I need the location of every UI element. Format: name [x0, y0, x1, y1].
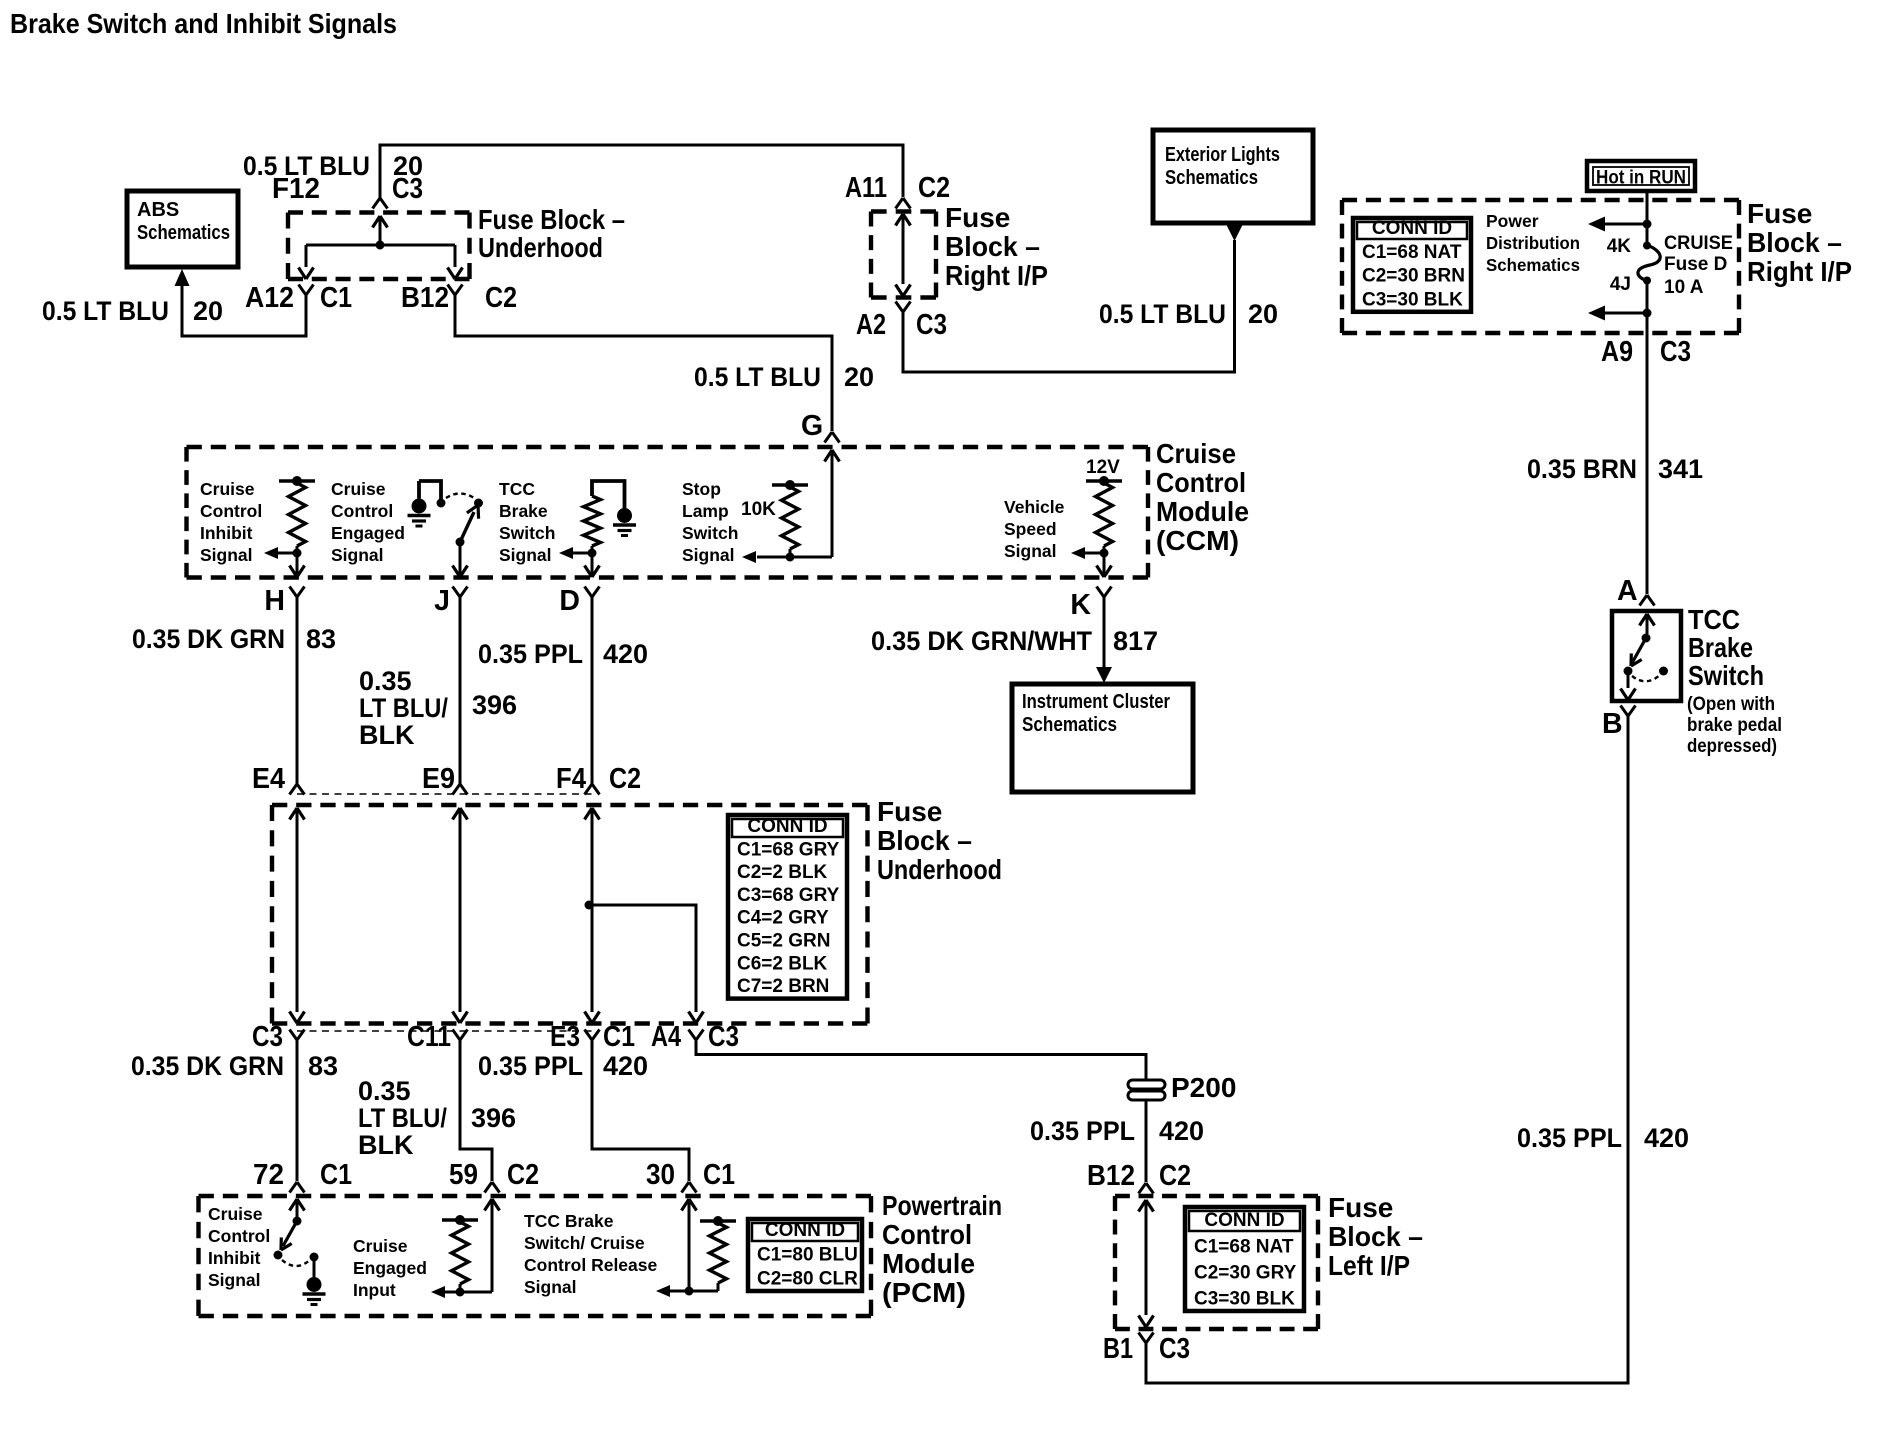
- svg-text:Engaged: Engaged: [331, 523, 405, 543]
- svg-text:CONN ID: CONN ID: [765, 1220, 845, 1241]
- P200 grommet: [1128, 1080, 1165, 1100]
- wire A4 to P200: [696, 1040, 1146, 1182]
- svg-text:Control: Control: [200, 501, 262, 521]
- connector G fork: [825, 432, 840, 443]
- junction dot 30: [685, 1287, 694, 1296]
- wire B12 to G: [455, 295, 832, 431]
- connector B12/C2 fork left: [1139, 1183, 1154, 1194]
- label Fuse Block - Underhood 2: [877, 796, 1002, 885]
- svg-text:Cruise: Cruise: [200, 479, 255, 499]
- svg-text:Brake: Brake: [1688, 632, 1753, 663]
- svg-text:Signal: Signal: [1004, 541, 1057, 561]
- arrow fuse bottom branch: [1588, 306, 1605, 321]
- svg-text:B1: B1: [1103, 1333, 1133, 1365]
- svg-text:420: 420: [1159, 1116, 1204, 1146]
- svg-text:Underhood: Underhood: [478, 232, 603, 263]
- wire C3 to pin 72: [296, 1040, 299, 1181]
- label TCC brake switch cruise control release signal: [524, 1211, 657, 1297]
- J switch ground contact dot: [437, 499, 446, 508]
- svg-text:H: H: [264, 585, 285, 617]
- wire C11 to pin 59: [460, 1040, 492, 1181]
- label Cruise Control Module CCM: [1156, 438, 1249, 556]
- wire A2 to exterior lights: [903, 240, 1235, 372]
- arrow K signal: [1071, 547, 1104, 559]
- svg-text:C2=2 BLK: C2=2 BLK: [737, 862, 828, 883]
- svg-text:C2: C2: [1159, 1160, 1191, 1192]
- label 0.35 LT BLU/BLK 396 lower: [358, 1076, 516, 1160]
- label F12 C3: [272, 173, 423, 205]
- svg-text:B12: B12: [1087, 1160, 1135, 1192]
- svg-text:0.35 BRN: 0.35 BRN: [1527, 454, 1637, 484]
- resistor 30 pullup bar: [700, 1216, 736, 1226]
- svg-text:B: B: [1602, 708, 1623, 740]
- connector A2/C3 fork: [896, 302, 911, 313]
- label 59 C2: [449, 1159, 539, 1191]
- svg-text:0.35: 0.35: [358, 1076, 411, 1106]
- label 0.35 DK GRN 83 upper: [132, 624, 336, 654]
- junction dot D branch: [585, 901, 594, 910]
- arrow 30 signal: [656, 1285, 718, 1297]
- svg-text:Schematics: Schematics: [1165, 167, 1258, 189]
- connector A4/C3 fork: [689, 1030, 704, 1041]
- CONN ID table left I/P: [1185, 1207, 1304, 1311]
- cruise control module box: [187, 447, 1149, 578]
- svg-text:Powertrain: Powertrain: [882, 1190, 1002, 1221]
- svg-text:Inhibit: Inhibit: [200, 523, 253, 543]
- label 0.5 LT BLU 20 left: [42, 296, 223, 326]
- svg-text:G: G: [801, 410, 823, 442]
- arrow down B1 inside: [1139, 1316, 1154, 1328]
- svg-text:F4: F4: [556, 763, 586, 795]
- wire A12 to ABS: [182, 286, 306, 336]
- J switch pivot dot: [456, 538, 465, 547]
- arrow up E4 inside: [290, 808, 305, 820]
- wire G branch left: [757, 556, 832, 559]
- svg-text:4K: 4K: [1607, 236, 1632, 257]
- svg-text:Signal: Signal: [331, 545, 384, 565]
- TCC switch contact dot B: [1659, 667, 1668, 676]
- svg-text:Block –: Block –: [877, 825, 972, 856]
- connector 30 fork: [682, 1182, 697, 1193]
- label 0.35 PPL 420 right: [1517, 1123, 1689, 1153]
- wire TCC pivot down: [1621, 671, 1636, 700]
- svg-text:CONN ID: CONN ID: [747, 816, 827, 837]
- connector A11/C2 fork: [896, 198, 911, 209]
- label Powertrain Control Module PCM: [882, 1190, 1002, 1308]
- connector 72 fork: [290, 1182, 305, 1193]
- connector B1/C3 fork: [1139, 1333, 1154, 1344]
- svg-text:C3: C3: [1660, 336, 1691, 368]
- resistor 30: [710, 1223, 727, 1291]
- svg-text:Stop: Stop: [682, 479, 721, 499]
- svg-text:(CCM): (CCM): [1156, 525, 1239, 556]
- svg-text:Instrument Cluster: Instrument Cluster: [1022, 691, 1170, 713]
- svg-text:0.35 PPL: 0.35 PPL: [1517, 1123, 1622, 1153]
- svg-text:30: 30: [646, 1159, 675, 1191]
- resistor K pullup bar: [1086, 476, 1122, 486]
- svg-text:Fuse: Fuse: [877, 796, 942, 827]
- connector C3 fork: [290, 1030, 305, 1041]
- ground J: [408, 481, 442, 526]
- svg-text:Brake: Brake: [499, 501, 548, 521]
- svg-text:CRUISE: CRUISE: [1664, 233, 1733, 254]
- ABS Schematics box: [127, 191, 238, 267]
- label A9 C3: [1601, 336, 1691, 368]
- connector C11 fork: [453, 1030, 468, 1041]
- label A11 C2: [845, 172, 950, 204]
- fuse block right I/P small box: [871, 212, 936, 298]
- label A2 C3: [856, 309, 947, 341]
- svg-text:Signal: Signal: [682, 545, 735, 565]
- junction dot G: [786, 553, 795, 562]
- svg-text:341: 341: [1658, 454, 1703, 484]
- svg-text:P200: P200: [1171, 1072, 1236, 1103]
- svg-text:K: K: [1070, 589, 1091, 621]
- svg-text:Block –: Block –: [945, 231, 1040, 262]
- svg-text:A2: A2: [856, 309, 886, 341]
- arrow down inside A11 box: [896, 285, 911, 297]
- svg-text:B12: B12: [401, 282, 449, 314]
- wire E4-C3 through box: [290, 808, 305, 1023]
- svg-text:Schematics: Schematics: [137, 222, 230, 244]
- svg-text:C1=68 NAT: C1=68 NAT: [1194, 1237, 1294, 1258]
- PCM switch contact post: [313, 1257, 316, 1277]
- fuse terminal bottom dot: [1643, 277, 1651, 285]
- arrow fuse top branch: [1588, 217, 1605, 232]
- label P200: [1171, 1072, 1236, 1103]
- svg-text:20: 20: [844, 362, 874, 392]
- label J: [434, 585, 450, 617]
- svg-text:C3: C3: [708, 1021, 739, 1053]
- svg-text:Cruise: Cruise: [1156, 438, 1236, 469]
- resistor D top to ground: [592, 481, 625, 509]
- svg-text:D: D: [559, 585, 580, 617]
- J switch blade: [460, 505, 479, 542]
- svg-text:Switch: Switch: [499, 523, 555, 543]
- svg-text:C3: C3: [1159, 1333, 1190, 1365]
- svg-text:420: 420: [603, 1051, 648, 1081]
- label Fuse Block - Left I/P: [1328, 1192, 1423, 1281]
- wire H down: [290, 553, 305, 577]
- svg-text:C2=80 CLR: C2=80 CLR: [757, 1269, 858, 1290]
- svg-text:Module: Module: [882, 1248, 975, 1279]
- label 72 C1: [253, 1159, 352, 1191]
- J switch travel arc: [446, 494, 474, 499]
- svg-text:10 A: 10 A: [1664, 277, 1704, 298]
- label 4K: [1607, 236, 1632, 257]
- label 0.5 LT BLU 20 right: [1099, 299, 1278, 329]
- svg-text:Cruise: Cruise: [353, 1236, 408, 1256]
- label Power Distribution Schematics: [1486, 211, 1580, 275]
- svg-text:83: 83: [306, 624, 336, 654]
- svg-text:J: J: [434, 585, 450, 617]
- svg-text:Block –: Block –: [1747, 227, 1842, 258]
- svg-text:0.5 LT BLU: 0.5 LT BLU: [1099, 299, 1226, 329]
- svg-text:brake pedal: brake pedal: [1687, 715, 1782, 736]
- TCC switch pivot dot: [1624, 667, 1633, 676]
- connector B fork: [1621, 706, 1636, 717]
- label H: [264, 585, 285, 617]
- svg-text:Signal: Signal: [524, 1277, 577, 1297]
- label cruise control inhibit signal PCM: [208, 1204, 270, 1290]
- label K: [1070, 589, 1091, 621]
- svg-text:Fuse: Fuse: [1747, 198, 1812, 229]
- svg-text:A9: A9: [1601, 336, 1633, 368]
- svg-text:420: 420: [1644, 1123, 1689, 1153]
- svg-text:Module: Module: [1156, 496, 1249, 527]
- svg-text:Control: Control: [208, 1226, 270, 1246]
- svg-text:Brake Switch and Inhibit Signa: Brake Switch and Inhibit Signals: [10, 8, 397, 39]
- PCM switch travel arc: [282, 1260, 310, 1266]
- svg-text:A: A: [1617, 575, 1638, 607]
- wire J to E9: [459, 597, 462, 784]
- label stop lamp switch signal: [682, 479, 738, 565]
- svg-text:C1=68 NAT: C1=68 NAT: [1362, 242, 1462, 263]
- label Fuse Block - Underhood: [478, 204, 625, 263]
- PCM switch blade: [281, 1221, 297, 1250]
- svg-text:Input: Input: [353, 1280, 396, 1300]
- svg-text:0.35: 0.35: [359, 666, 412, 696]
- svg-text:Distribution: Distribution: [1486, 233, 1580, 253]
- wire B1 down: [1145, 1343, 1148, 1385]
- svg-text:C1: C1: [703, 1159, 735, 1191]
- svg-text:Fuse D: Fuse D: [1664, 254, 1727, 275]
- arrow up E9 inside: [453, 808, 468, 820]
- connector row line bottom: [297, 1030, 592, 1032]
- svg-text:0.35 DK GRN: 0.35 DK GRN: [131, 1051, 284, 1081]
- wire D down: [585, 553, 600, 577]
- svg-text:0.35 PPL: 0.35 PPL: [478, 639, 583, 669]
- junction dot K: [1100, 549, 1109, 558]
- svg-text:396: 396: [472, 690, 517, 720]
- connector F4/C2 fork: [585, 784, 600, 795]
- wire through left I/P box: [1145, 1200, 1148, 1315]
- svg-text:A12: A12: [245, 282, 294, 314]
- label cruise engaged input: [353, 1236, 427, 1300]
- svg-text:0.5 LT BLU: 0.5 LT BLU: [694, 362, 821, 392]
- svg-text:420: 420: [603, 639, 648, 669]
- label Fuse Block - Right I/P: [1747, 198, 1852, 287]
- exterior lights schematics box: [1153, 130, 1313, 223]
- wire K to instrument cluster: [1103, 597, 1106, 668]
- TCC switch blade: [1631, 638, 1646, 666]
- TCC brake switch box: [1612, 611, 1681, 701]
- connector J fork: [453, 587, 468, 598]
- powertrain control module box: [199, 1196, 872, 1316]
- svg-text:C1=68 GRY: C1=68 GRY: [737, 839, 840, 860]
- arrow up G inside CCM: [825, 450, 840, 557]
- resistor D: [584, 496, 601, 553]
- connector E4 fork: [290, 784, 305, 795]
- label TCC Brake Switch: [1688, 604, 1764, 691]
- connector D fork: [585, 587, 600, 598]
- TCC switch contact dot A: [1642, 634, 1651, 643]
- wire J down: [453, 542, 468, 577]
- connector row line top: [297, 793, 592, 795]
- svg-text:817: 817: [1113, 626, 1158, 656]
- arrow up F4 inside: [585, 808, 600, 820]
- connector E3/C1 fork: [585, 1030, 600, 1041]
- svg-text:0.35 PPL: 0.35 PPL: [478, 1051, 583, 1081]
- Hot in RUN box: [1587, 161, 1695, 191]
- svg-text:C3: C3: [252, 1021, 283, 1053]
- ground PCM switch: [303, 1277, 326, 1305]
- svg-text:396: 396: [471, 1103, 516, 1133]
- svg-text:C2: C2: [507, 1159, 539, 1191]
- instrument cluster schematics box: [1012, 684, 1193, 792]
- fuse block left I/P box: [1115, 1196, 1318, 1329]
- svg-text:Vehicle: Vehicle: [1004, 497, 1065, 517]
- ground D: [613, 508, 636, 536]
- junction dot fuse top feed: [1643, 220, 1652, 229]
- svg-text:Signal: Signal: [208, 1270, 261, 1290]
- svg-text:A4: A4: [651, 1021, 681, 1053]
- resistor 59: [452, 1222, 469, 1292]
- svg-text:BLK: BLK: [358, 1130, 414, 1160]
- svg-text:ABS: ABS: [137, 199, 179, 221]
- label 12V: [1086, 457, 1120, 478]
- svg-text:Switch/ Cruise: Switch/ Cruise: [524, 1233, 645, 1253]
- svg-text:Fuse Block –: Fuse Block –: [478, 204, 625, 235]
- svg-text:C2: C2: [609, 763, 641, 795]
- svg-text:12V: 12V: [1086, 457, 1120, 478]
- junction dot underhood: [376, 241, 385, 250]
- label G: [801, 410, 823, 442]
- svg-text:C3: C3: [392, 173, 423, 205]
- svg-text:(PCM): (PCM): [882, 1277, 966, 1308]
- wire top bus F12 to A11: [380, 145, 903, 198]
- label vehicle speed signal: [1004, 497, 1065, 561]
- arrow up pin 72 inside: [290, 1199, 305, 1217]
- svg-text:72: 72: [253, 1159, 284, 1191]
- svg-text:C3=30 BLK: C3=30 BLK: [1362, 289, 1463, 310]
- svg-text:C6=2 BLK: C6=2 BLK: [737, 953, 828, 974]
- svg-text:20: 20: [1248, 299, 1278, 329]
- label 0.35 DK GRN 83 lower: [131, 1051, 338, 1081]
- CONN ID table PCM: [748, 1219, 862, 1291]
- svg-text:Control: Control: [1156, 467, 1246, 498]
- resistor 59 pullup bar: [442, 1215, 478, 1225]
- wire underhood internal tee: [306, 245, 455, 267]
- wire H to E4: [296, 597, 299, 784]
- label 0.35 PPL 420 p200: [1030, 1116, 1204, 1146]
- label open with brake pedal depressed: [1687, 694, 1782, 757]
- label A12 C1: [245, 282, 352, 314]
- junction dot D: [588, 549, 597, 558]
- svg-text:TCC: TCC: [1688, 604, 1740, 635]
- arrow into instrument cluster: [1096, 667, 1112, 683]
- label Fuse Block - Right I/P small: [945, 202, 1048, 291]
- svg-text:Cruise: Cruise: [331, 479, 386, 499]
- svg-text:C3=30 BLK: C3=30 BLK: [1194, 1289, 1295, 1310]
- svg-text:0.35 PPL: 0.35 PPL: [1030, 1116, 1135, 1146]
- resistor H: [289, 483, 306, 553]
- svg-text:E9: E9: [422, 763, 455, 795]
- arrow up inside TCC switch: [1640, 614, 1655, 634]
- label 0.5 LT BLU 20 mid: [694, 362, 874, 392]
- label E4 E9 F4 C2: [252, 763, 641, 795]
- svg-text:F12: F12: [272, 173, 320, 205]
- junction dot 59: [456, 1288, 465, 1297]
- svg-text:Switch: Switch: [682, 523, 738, 543]
- svg-text:4J: 4J: [1610, 274, 1631, 295]
- connector E9 fork: [453, 784, 468, 795]
- svg-text:C2: C2: [918, 172, 950, 204]
- svg-text:Hot in RUN: Hot in RUN: [1596, 168, 1686, 189]
- svg-text:Control: Control: [331, 501, 393, 521]
- J switch contact dot: [474, 499, 483, 508]
- svg-text:Left I/P: Left I/P: [1328, 1250, 1410, 1281]
- svg-text:C11: C11: [407, 1021, 451, 1053]
- CONN ID table right I/P: [1353, 218, 1471, 312]
- svg-text:C1=80 BLU: C1=80 BLU: [757, 1245, 858, 1266]
- svg-text:Lamp: Lamp: [682, 501, 729, 521]
- label cruise control inhibit signal: [200, 479, 262, 565]
- PCM switch contact dot: [310, 1253, 319, 1262]
- label 0.35 BRN 341: [1527, 454, 1703, 484]
- resistor H pullup bar: [279, 476, 315, 486]
- arrow down to A12: [299, 268, 314, 280]
- connector B12/C2 fork: [448, 285, 463, 296]
- connector A12/C1 fork: [299, 285, 314, 296]
- wire fuse bottom branch: [1604, 312, 1647, 315]
- svg-text:C1: C1: [320, 1159, 352, 1191]
- svg-text:Switch: Switch: [1688, 660, 1764, 691]
- svg-text:C2=30 GRY: C2=30 GRY: [1194, 1263, 1297, 1284]
- label 0.35 PPL 420 lower: [478, 1051, 648, 1081]
- svg-text:(Open with: (Open with: [1687, 694, 1775, 715]
- arrow up pin 30 inside: [682, 1199, 697, 1291]
- connector K fork: [1097, 587, 1112, 598]
- svg-text:Cruise: Cruise: [208, 1204, 263, 1224]
- svg-text:0.35 DK GRN/WHT: 0.35 DK GRN/WHT: [871, 626, 1092, 656]
- arrow H signal: [264, 547, 297, 559]
- svg-text:10K: 10K: [741, 499, 776, 520]
- resistor 10K pullup bar: [772, 480, 808, 490]
- wire D to F4: [591, 597, 594, 784]
- wire B down right column: [1146, 716, 1628, 1383]
- wire branch to A4: [589, 905, 704, 1023]
- label 0.35 DK GRN/WHT 817: [871, 626, 1158, 656]
- svg-text:C1: C1: [320, 282, 352, 314]
- svg-text:Fuse: Fuse: [1328, 1192, 1393, 1223]
- label cruise control engaged signal: [331, 479, 405, 565]
- svg-text:Inhibit: Inhibit: [208, 1248, 261, 1268]
- arrow into ABS box: [175, 269, 190, 286]
- svg-text:Exterior Lights: Exterior Lights: [1165, 144, 1280, 166]
- svg-text:TCC: TCC: [499, 479, 535, 499]
- connector A fork: [1640, 595, 1655, 606]
- svg-text:C3: C3: [916, 309, 947, 341]
- label D: [559, 585, 580, 617]
- svg-text:C3=68 GRY: C3=68 GRY: [737, 885, 840, 906]
- wire E3 to pin 30: [592, 1040, 689, 1181]
- PCM switch top dot: [293, 1217, 302, 1226]
- svg-text:E4: E4: [252, 763, 285, 795]
- svg-text:0.35 DK GRN: 0.35 DK GRN: [132, 624, 285, 654]
- arrow up B12 inside: [1139, 1200, 1154, 1212]
- svg-text:83: 83: [308, 1051, 338, 1081]
- arrow up into F12 inside box: [373, 216, 388, 245]
- label TCC brake switch signal: [499, 479, 555, 565]
- TCC switch travel arc: [1632, 675, 1660, 681]
- svg-text:Control Release: Control Release: [524, 1255, 657, 1275]
- svg-text:Block –: Block –: [1328, 1221, 1423, 1252]
- label B12 C2: [401, 282, 517, 314]
- fuse block right I/P box: [1342, 200, 1739, 333]
- svg-text:Signal: Signal: [499, 545, 552, 565]
- svg-text:TCC Brake: TCC Brake: [524, 1211, 614, 1231]
